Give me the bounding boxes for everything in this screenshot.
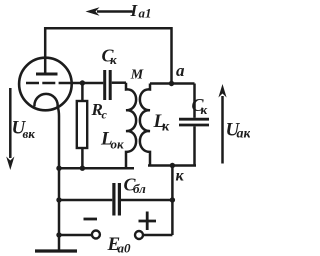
- grid wire to junction: [71, 82, 103, 85]
- wire top rail with anode lead and node-a drop: [45, 28, 171, 83]
- svg-text:ак: ак: [237, 127, 251, 142]
- svg-text:а1: а1: [139, 6, 152, 21]
- wire к to bottom: [171, 166, 174, 236]
- junction Cбл right: [170, 197, 175, 202]
- node к: [170, 163, 175, 168]
- label a: [176, 61, 185, 80]
- svg-text:а0: а0: [118, 241, 132, 256]
- label Rc: [91, 100, 108, 122]
- capacitor Ck (tank): [193, 84, 196, 118]
- cathode rail: [58, 167, 134, 170]
- inductor Lok: [126, 83, 136, 169]
- junction Cбл left: [56, 197, 61, 202]
- arrow Uвк: [9, 88, 12, 158]
- junction cathode-rail left: [56, 166, 61, 171]
- svg-text:а: а: [176, 61, 185, 80]
- label Uак: [226, 120, 252, 142]
- label Lok: [100, 129, 124, 152]
- ground: [58, 235, 61, 251]
- triode tube envelope: [19, 58, 72, 111]
- svg-text:бл: бл: [133, 181, 146, 196]
- left vertical wire: [58, 168, 61, 235]
- svg-text:ок: ок: [111, 137, 125, 152]
- label Ia1: [130, 1, 152, 21]
- arrowhead Ia1: [86, 7, 100, 16]
- arrow Ia1: [97, 10, 133, 13]
- svg-text:с: с: [102, 108, 108, 122]
- arrow Uак: [221, 96, 224, 164]
- svg-text:вк: вк: [23, 126, 36, 141]
- label Ck2: [192, 95, 208, 117]
- minus terminal: [59, 234, 92, 237]
- grid (dashed): [26, 82, 72, 85]
- label M: [130, 67, 144, 82]
- label Lk: [153, 111, 171, 135]
- svg-text:к: к: [110, 52, 117, 67]
- minus sign: [84, 218, 98, 221]
- svg-text:к: к: [176, 168, 185, 185]
- tank bottom wire: [148, 164, 196, 167]
- label к: [176, 168, 185, 185]
- tank top wire: [150, 82, 195, 85]
- junction minus wire: [56, 232, 61, 237]
- plus terminal: [135, 231, 143, 239]
- capacitor Ck (grid): [103, 70, 106, 100]
- label Cбл: [124, 175, 147, 197]
- junction grid node: [80, 80, 85, 85]
- inductor Lk: [140, 84, 150, 166]
- label Ck: [102, 46, 118, 68]
- cathode: [34, 94, 59, 168]
- junction Rc bottom: [80, 166, 85, 171]
- arrowhead Uвк: [6, 157, 14, 171]
- anode plate bar: [36, 73, 58, 76]
- plus sign: [139, 212, 157, 231]
- capacitor Cбл: [59, 199, 112, 202]
- arrowhead Uак: [218, 84, 226, 98]
- label Eа0: [107, 234, 132, 256]
- resistor Rc: [81, 83, 84, 101]
- label Uвк: [12, 118, 36, 142]
- svg-text:к: к: [162, 120, 170, 135]
- svg-text:к: к: [201, 102, 208, 117]
- svg-text:М: М: [130, 67, 144, 82]
- node a: [169, 81, 174, 86]
